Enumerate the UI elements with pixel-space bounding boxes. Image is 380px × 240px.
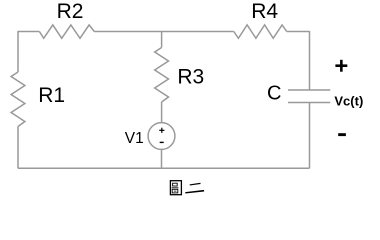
wire left upper segment: [17, 31, 19, 72]
svg-text:R2: R2: [57, 0, 84, 23]
resistor R4: [234, 25, 287, 38]
source V1 plus mark: [159, 128, 164, 133]
wire middle upper segment: [161, 32, 163, 48]
label V1: [125, 130, 144, 147]
label R3: [177, 66, 204, 89]
wire right upper segment: [309, 31, 311, 90]
label R4: [251, 0, 278, 23]
svg-text:C: C: [267, 82, 281, 104]
wire V1 to bottom: [161, 149, 163, 168]
resistor R1: [11, 72, 25, 127]
label Vc(t): [334, 93, 363, 108]
wire top-middle segment: [94, 31, 234, 33]
svg-text:R3: R3: [177, 66, 204, 89]
wire R3 to V1: [161, 102, 163, 123]
capacitor C bottom plate: [288, 102, 330, 104]
svg-text:R1: R1: [38, 84, 65, 107]
source V1 minus mark: [160, 141, 164, 143]
polarity minus (capacitor): [338, 133, 346, 136]
label R2: [57, 0, 84, 23]
wire right lower segment: [309, 103, 311, 169]
node top junction: [161, 31, 163, 33]
node bottom junction: [161, 167, 163, 169]
resistor R2: [39, 25, 94, 38]
polarity plus (capacitor): [335, 60, 347, 72]
source V1: [148, 123, 175, 150]
resistor R3: [155, 48, 169, 103]
svg-text:R4: R4: [251, 0, 278, 23]
svg-text:Vc(t): Vc(t): [334, 93, 363, 108]
caption 圖二 (Figure 2): [170, 181, 204, 195]
svg-text:V1: V1: [125, 130, 144, 147]
wire top-right segment: [287, 31, 310, 33]
wire bottom segment: [18, 167, 310, 169]
label R1: [38, 84, 65, 107]
capacitor C top plate: [288, 89, 330, 91]
wire top-left segment: [18, 31, 39, 33]
wire left lower segment: [17, 127, 19, 169]
label C: [267, 82, 281, 104]
